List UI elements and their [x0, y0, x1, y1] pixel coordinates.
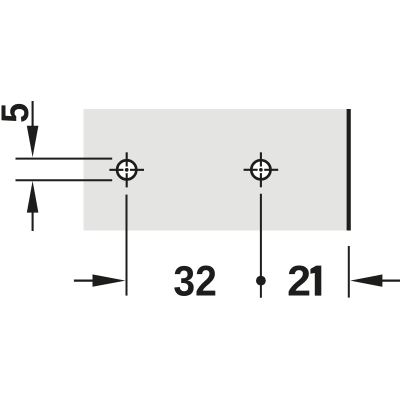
- shared dimension point dot: [256, 276, 266, 286]
- dimension 5 upper arrow: [27, 101, 39, 157]
- reference line bottom: [16, 179, 113, 181]
- extension line right edge: [348, 246, 350, 298]
- label 21 digit 1: [310, 266, 321, 296]
- svg-text:2: 2: [287, 258, 311, 306]
- bottom dimension right arrow: [350, 274, 400, 286]
- bottom dimension left arrow: [74, 274, 126, 286]
- dimension 5 lower arrow: [27, 181, 39, 231]
- svg-text:32: 32: [173, 258, 217, 306]
- svg-text:5: 5: [0, 103, 37, 123]
- extension line from H2: [260, 194, 262, 298]
- hole H2 crosshair: [244, 152, 279, 187]
- plate right edge (thick black): [347, 109, 351, 231]
- reference line top: [16, 158, 113, 160]
- plate body: [84, 109, 347, 231]
- extension line from H1: [126, 195, 128, 296]
- hole H1 crosshair: [109, 152, 144, 187]
